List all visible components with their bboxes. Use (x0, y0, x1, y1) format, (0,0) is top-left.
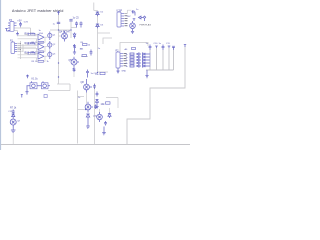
pin labels (18, 43, 22, 51)
node +5V (26, 75, 29, 78)
wire: TL1 outputs (14, 27, 31, 35)
resistor RV3 (28, 53, 35, 55)
resistor R10 (44, 95, 47, 98)
transistor Q10 (97, 112, 103, 122)
capacitor C16 (104, 121, 107, 126)
op-amp U1A stage (18, 32, 57, 45)
wire (73, 72, 75, 77)
net rail (149, 53, 151, 68)
svg-text:GND: GND (122, 71, 127, 73)
wire: TL2 column (21, 41, 24, 59)
svg-text:U1C: U1C (39, 52, 44, 54)
capacitor C15 (96, 92, 99, 97)
ground (16, 32, 19, 36)
transistor Q9 (85, 102, 93, 113)
diode pair D2 (96, 12, 99, 16)
op-amp U1B stage (18, 41, 57, 54)
capacitor C19 (90, 50, 93, 56)
junction dots (58, 29, 98, 110)
feedback wire (37, 37, 46, 42)
wire: cap drop verticals (146, 48, 174, 70)
connector P1 (11, 42, 17, 54)
wire: conn to opamps (17, 43, 36, 51)
op-amp U1A (38, 34, 44, 40)
diode D8 (96, 100, 99, 105)
capacitor C1 (19, 22, 22, 27)
resistor RV1 (28, 34, 35, 36)
resistor RV2 (28, 43, 35, 45)
ground (116, 68, 119, 73)
capacitor C17 (94, 105, 97, 110)
ground (25, 86, 28, 94)
node stub right (184, 45, 186, 48)
svg-text:U1A: U1A (39, 32, 44, 35)
resistor R2 (38, 51, 44, 53)
ground (102, 127, 106, 135)
transistor Q7 (10, 119, 16, 128)
diode D7 (108, 114, 111, 119)
node stub (155, 46, 170, 48)
op-amp U1C (38, 53, 44, 59)
op-amp U1B (38, 44, 44, 50)
svg-text:U1B: U1B (39, 42, 44, 44)
wire (106, 98, 118, 109)
resistor R1 (38, 41, 44, 43)
capacitor C12 (12, 110, 15, 115)
svg-text:RV1 100k: RV1 100k (25, 32, 36, 35)
power +5V node (57, 11, 60, 15)
capacitor C18 (172, 46, 175, 50)
resistor R3 (38, 60, 44, 62)
svg-text:K1 1k: K1 1k (32, 78, 39, 81)
resistor network rows (125, 48, 151, 69)
transistor Q6 (130, 21, 136, 31)
transistor Q3 (48, 51, 52, 60)
power flag PWR2 (143, 16, 145, 21)
wire (12, 132, 14, 144)
wire (124, 10, 132, 13)
power flag PWR1 (5, 29, 10, 32)
capacitor C8 (73, 44, 76, 49)
ground (145, 70, 148, 78)
wire: y=109.5 jog to Q (78, 91, 85, 144)
feedback wire (37, 56, 46, 61)
diode D5 (12, 114, 15, 119)
diode D4 (139, 16, 144, 19)
svg-text:PWR FLAG: PWR FLAG (140, 24, 152, 27)
svg-text:R7 1k: R7 1k (10, 107, 17, 110)
resistor R5 (82, 55, 87, 57)
svg-text:RV3 100k: RV3 100k (25, 51, 36, 54)
svg-text:Arduino JFET matcher shield: Arduino JFET matcher shield (12, 9, 64, 13)
resistor R9 (106, 102, 111, 104)
capacitor C14 (93, 84, 96, 89)
svg-text:RV2 100k: RV2 100k (25, 42, 36, 45)
wire (86, 93, 88, 105)
capacitor C13 (86, 70, 89, 76)
extra value labels (8, 12, 170, 123)
wire: bus x=57 (58, 15, 60, 85)
ground (131, 31, 134, 34)
wire: left rail x=97.5 (94, 3, 110, 73)
capacitor C2 (57, 22, 60, 23)
wire: arduino top loop (103, 38, 148, 52)
wire: top-middle joins (50, 19, 88, 57)
ground (86, 120, 90, 129)
svg-text:+5V: +5V (17, 19, 22, 22)
resistor R4 (83, 44, 88, 46)
wire: mid vertical net x=94.5 (94, 83, 96, 145)
transistor Q2 (48, 41, 52, 50)
node VCC (133, 19, 136, 21)
ground (11, 128, 16, 133)
op-amp U1C stage (18, 51, 57, 64)
transistor Q1 (48, 32, 52, 41)
ground (73, 49, 76, 54)
relay K2 (42, 81, 51, 89)
diode D6 (86, 114, 89, 120)
svg-text:5.0V: 5.0V (24, 22, 29, 24)
svg-text:1u C5: 1u C5 (73, 17, 80, 19)
diode D1 (73, 33, 76, 39)
node +5V mark (21, 95, 23, 98)
ground (95, 104, 98, 109)
feedback wire (37, 47, 46, 52)
connector P3 (8, 22, 17, 32)
svg-text:+5V: +5V (127, 16, 131, 18)
wire: bottom GND bus (1, 144, 190, 146)
capacitor C20 (73, 67, 76, 72)
diode pair D3 (96, 24, 99, 28)
wire: y=89.5 jog (48, 84, 70, 91)
capacitor C9 (132, 10, 136, 15)
window edge (0, 0, 1, 150)
wire (100, 108, 110, 114)
wire: right staircase net (127, 46, 185, 145)
